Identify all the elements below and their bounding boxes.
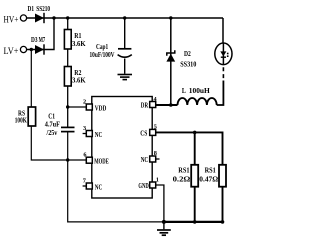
resistor R1 3.6K bbox=[64, 30, 85, 50]
resistor RS bbox=[15, 107, 36, 126]
svg-text:5: 5 bbox=[154, 124, 157, 131]
pin 7 NC bbox=[83, 178, 103, 192]
wire RS to MODE bbox=[31, 126, 86, 160]
resistor RS1 0.2ohm bbox=[173, 165, 199, 187]
svg-text:RS1: RS1 bbox=[205, 166, 216, 175]
svg-text:CS: CS bbox=[140, 128, 147, 137]
svg-text:0.2Ω: 0.2Ω bbox=[173, 175, 191, 184]
wire DR to inductor bbox=[156, 104, 178, 106]
svg-text:1: 1 bbox=[156, 177, 159, 184]
node junction R1 top bbox=[66, 16, 69, 19]
capacitor C1 4.7uF/25v bbox=[45, 111, 75, 137]
svg-text:NC: NC bbox=[95, 182, 103, 191]
capacitor Cap1 10uF/100V bbox=[90, 18, 132, 59]
wire top HV rail bbox=[27, 17, 223, 19]
ground (Cap1) bbox=[118, 59, 133, 80]
svg-text:/25v: /25v bbox=[46, 128, 58, 137]
svg-text:D2: D2 bbox=[184, 49, 191, 58]
pin 5 CS bbox=[140, 124, 157, 138]
node junction Cap1 top bbox=[123, 16, 126, 19]
terminal LV+ bbox=[20, 46, 26, 52]
svg-text:SS310: SS310 bbox=[180, 59, 196, 68]
pin 2 VDD bbox=[83, 99, 106, 113]
wire RS1 right bottom lead bbox=[222, 187, 224, 222]
node junction RS1 left bottom bbox=[193, 220, 197, 224]
svg-text:D3: D3 bbox=[31, 35, 38, 44]
pin 8 NC bbox=[141, 150, 160, 164]
wire bottom ground rail (thick) bbox=[164, 221, 223, 223]
svg-text:D1: D1 bbox=[28, 4, 35, 13]
wire R chain top lead bbox=[67, 18, 69, 30]
svg-text:HV+: HV+ bbox=[4, 16, 19, 26]
node junction D2 top bbox=[169, 16, 172, 19]
IC U1 body bbox=[92, 97, 152, 199]
svg-text:100uH: 100uH bbox=[189, 86, 210, 95]
wire LED dashed string bbox=[222, 67, 224, 80]
wire RS branch bbox=[30, 50, 32, 108]
wire GND pin to ground rail bbox=[156, 185, 164, 222]
inductor L 100uH bbox=[178, 86, 217, 105]
diode D1 SS210 bbox=[28, 4, 51, 23]
node junction VDD bbox=[66, 105, 69, 108]
wire RS1 left bottom lead bbox=[194, 187, 196, 222]
svg-text:100K: 100K bbox=[15, 116, 27, 125]
svg-text:0.47Ω: 0.47Ω bbox=[199, 175, 218, 184]
resistor R2 3.6K bbox=[64, 67, 85, 87]
svg-text:LV+: LV+ bbox=[4, 47, 19, 57]
pin 1 GND bbox=[138, 177, 159, 190]
pin 4 DR bbox=[141, 96, 158, 110]
wire VDD pin bbox=[68, 106, 87, 108]
svg-text:VDD: VDD bbox=[95, 104, 107, 113]
node junction RS tap bbox=[30, 48, 33, 51]
node junction MODE/C1 bbox=[66, 158, 69, 161]
wire R2 to VDD node bbox=[67, 86, 69, 127]
svg-text:MODE: MODE bbox=[94, 156, 109, 165]
node junction LV/HV bbox=[52, 16, 55, 19]
node junction CS/RS1 bbox=[193, 131, 197, 135]
pin 3 NC bbox=[83, 125, 103, 139]
wire RS1 left top lead bbox=[194, 132, 196, 165]
diode D2 SS310 (schottky, cathode up) bbox=[166, 18, 196, 105]
svg-text:M7: M7 bbox=[39, 35, 46, 44]
wire top rail corner to LED bbox=[222, 18, 224, 44]
node junction ground bbox=[162, 220, 166, 224]
wire inductor to LED string bbox=[217, 81, 224, 106]
svg-text:SS210: SS210 bbox=[36, 4, 50, 13]
resistor RS1 0.47ohm bbox=[199, 165, 226, 187]
svg-text:RS1: RS1 bbox=[178, 166, 189, 175]
svg-text:NC: NC bbox=[141, 155, 149, 164]
diode D3 M7 bbox=[31, 35, 45, 55]
LED lamp bbox=[215, 43, 232, 65]
svg-text:8: 8 bbox=[154, 150, 157, 157]
wire CS net bbox=[156, 132, 223, 165]
svg-text:NC: NC bbox=[95, 130, 103, 139]
svg-text:6: 6 bbox=[83, 151, 86, 158]
svg-text:3.6K: 3.6K bbox=[72, 76, 86, 85]
wire C1 bottom down to bottom rail bbox=[68, 132, 164, 222]
wire LV rail bbox=[27, 18, 54, 50]
svg-text:3.6K: 3.6K bbox=[72, 39, 86, 48]
node junction RS1 right bottom bbox=[221, 220, 225, 224]
terminal HV+ bbox=[20, 15, 26, 21]
svg-text:3: 3 bbox=[83, 125, 86, 132]
svg-text:7: 7 bbox=[83, 178, 86, 185]
node junction D2/DR bbox=[169, 103, 173, 107]
pin 6 MODE bbox=[83, 151, 108, 165]
svg-text:DR: DR bbox=[141, 101, 149, 110]
svg-text:GND: GND bbox=[138, 181, 148, 190]
wire R1-R2 bbox=[67, 49, 69, 67]
svg-text:2: 2 bbox=[83, 99, 86, 106]
svg-text:10uF/100V: 10uF/100V bbox=[90, 50, 115, 59]
ground (bottom) bbox=[157, 222, 171, 235]
svg-text:L: L bbox=[182, 86, 186, 95]
